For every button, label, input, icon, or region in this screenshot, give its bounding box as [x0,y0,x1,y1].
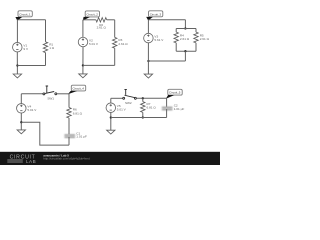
wire V4 top lead [20,94,22,104]
svg-text:5.01 V: 5.01 V [89,42,99,46]
resistor R4 [174,32,178,43]
voltage source V3 [144,33,154,43]
svg-text:2.61 Ω: 2.61 Ω [200,37,210,41]
svg-text:1.01 μF: 1.01 μF [76,135,87,139]
wire switch to corner c5 [136,97,166,99]
wire feed down c3 [184,20,186,29]
resistor R2 [96,18,107,22]
wire C2 top lead [166,98,168,107]
node top rail junction [184,27,186,29]
ground c4 [17,130,25,134]
label pointer wedge c1 [15,17,22,21]
wire bottom rail c3 [176,50,196,52]
svg-text:2.61 Ω: 2.61 Ω [180,37,190,41]
annotation label Circuit_3 [149,11,163,17]
CircuitLab logo [7,154,36,164]
wire R4 bottom lead [175,43,177,51]
wire right c1 [45,20,47,42]
svg-text:Circuit_4: Circuit_4 [73,86,85,90]
node c3 junction [147,60,149,62]
wire top-left c4 [21,93,43,95]
wire bottom c3 [148,60,185,62]
svg-text:http://circuitlab.com/c6pk4q3u: http://circuitlab.com/c6pk4q3ub4mrd [43,157,90,161]
switch SW1 [43,86,57,95]
resistor R3 [113,37,117,48]
watermark bar background [0,152,220,165]
annotation label Circuit_2 [85,11,99,17]
svg-text:Circuit_2: Circuit_2 [86,12,98,16]
svg-text:Circuit_5: Circuit_5 [169,91,181,95]
wire left c5 [110,98,112,103]
switch SW2 [123,89,137,99]
resistor R7 [141,102,145,113]
wire top c3 [148,19,185,21]
wire below V4 [20,113,22,130]
wire left c3 [147,20,149,34]
svg-text:LAB: LAB [26,159,36,164]
voltage source V4 [17,104,27,114]
wire R4 top lead [175,29,177,33]
wire top-left c2 [83,19,96,21]
svg-text:Circuit_1: Circuit_1 [19,12,31,16]
resistor R1 [43,42,47,53]
wire R5 bottom lead [195,43,197,51]
voltage source V2 [78,37,88,47]
wire top rail c3 [176,28,196,30]
wire top c1 [17,19,45,21]
wire bottom path c4 [21,122,69,145]
annotation label Circuit_1 [18,11,32,17]
wire left c1 [16,20,18,43]
node c4 junction [20,121,22,123]
wire top-left c5 [111,97,123,99]
node c2 junction [82,64,84,66]
label pointer wedge c2 [83,17,90,21]
wire R5 top lead [195,29,197,33]
node c1 junction [16,64,18,66]
svg-text:5.61 V: 5.61 V [154,38,164,42]
voltage source V1 [13,42,23,52]
svg-text:2.61 Ω: 2.61 Ω [118,42,128,46]
annotation label Circuit_4 [71,85,85,91]
wire right down c4 [68,94,70,108]
resistor R6 [67,108,71,119]
wire right c2 [114,20,116,38]
label pointer wedge c5 [166,95,175,99]
capacitor C2 [162,107,173,109]
wire below R3 [114,48,116,65]
ground c2 [79,74,87,78]
ground c3 [144,74,152,78]
svg-text:Circuit_3: Circuit_3 [150,12,162,16]
node bottom rail junction [184,50,186,52]
node c5 left junction [110,116,112,118]
svg-text:1 Ω: 1 Ω [49,46,55,50]
svg-text:6.81 Ω: 6.81 Ω [73,111,83,115]
ground c1 [13,74,21,78]
svg-text:5.01 V: 5.01 V [117,108,127,112]
svg-text:6.81 Ω: 6.81 Ω [147,105,157,109]
label pointer wedge c4 [68,91,78,94]
svg-text:5.01 V: 5.01 V [27,108,37,112]
label pointer wedge c3 [146,17,153,21]
node R7 bottom junction [142,116,144,118]
wire top-right c2 [107,19,115,21]
wire below V5 [110,112,112,130]
wire below V3 [147,43,149,74]
wire below V1 [16,52,18,74]
wire below R1 [45,53,47,66]
wire R7 bottom lead [142,112,144,117]
wire left c2 [82,20,84,38]
node R7 top junction [142,97,144,99]
wire below V2 [82,47,84,74]
wire C2 bottom lead [166,109,168,117]
wire bottom c5 [111,117,167,119]
svg-text:1.01 μF: 1.01 μF [174,107,185,111]
svg-text:2.61 Ω: 2.61 Ω [97,26,107,30]
wire bottom c2 [83,64,115,66]
resistor R5 [194,32,198,43]
wire exit down c3 [184,51,186,61]
annotation label Circuit_5 [168,89,182,95]
wire switch to corner c4 [57,93,69,95]
svg-text:SW1: SW1 [47,96,54,100]
ground c5 [107,130,115,134]
wire R6 to C1 [68,118,70,134]
wire R7 top lead [142,98,144,101]
svg-text:SW2: SW2 [125,101,132,105]
wire below C1 [68,137,70,145]
wire bottom c1 [17,65,45,67]
capacitor C1 [64,135,75,137]
voltage source V5 [106,103,116,113]
